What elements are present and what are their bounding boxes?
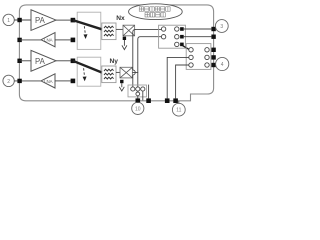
- svg-text:Ny: Ny: [110, 58, 119, 65]
- svg-text:LNA: LNA: [44, 79, 53, 84]
- M1 output contact row3: [175, 42, 179, 46]
- wire branch down to test pad c1: [133, 29, 136, 87]
- port 3: [215, 20, 228, 33]
- switch matrix box M1: [159, 25, 186, 48]
- coupler X2 tap junction: [120, 80, 123, 83]
- test pad group box: [128, 85, 147, 97]
- test pad c3: [141, 87, 145, 91]
- edge pad row2: [211, 35, 215, 39]
- M2 input contact row3: [189, 63, 193, 67]
- M2 output contact row1: [205, 48, 209, 52]
- M1 output contact row2: [175, 35, 179, 39]
- edge pad row1: [211, 27, 215, 31]
- test pad c4: [136, 92, 140, 96]
- M1 terminal row1: [180, 27, 184, 31]
- port 11: [172, 103, 185, 116]
- M1 output contact row1: [175, 27, 179, 31]
- M1 input contact row1: [161, 27, 165, 31]
- filter Nx waves: [104, 26, 114, 28]
- amplifier PA1: [31, 10, 56, 31]
- svg-text:1: 1: [7, 18, 10, 24]
- M1 terminal row3: [180, 43, 184, 47]
- control unit text line2: [145, 13, 165, 17]
- wire M1 row1 to edge: [184, 28, 212, 30]
- SW2 actuate arrow: [83, 68, 86, 76]
- M2 input contact row2: [189, 55, 193, 59]
- SW1 arm: [73, 20, 102, 29]
- wire PA2 in: [20, 60, 31, 62]
- wire coupler X1 to matrix row1: [135, 28, 162, 30]
- SW1 pole contact: [71, 18, 76, 23]
- filter Ny box: [102, 66, 116, 83]
- svg-text:11: 11: [176, 108, 181, 114]
- wire M2 row2 feed: [167, 57, 189, 98]
- wire Nx to coupler: [116, 28, 123, 30]
- switch box SW1: [77, 12, 101, 49]
- filter Ny waves: [104, 69, 114, 71]
- coupler X1 tap arrow: [122, 45, 127, 49]
- wire LNA1 in: [55, 39, 71, 41]
- coupler X2 tap line: [121, 83, 123, 87]
- port 4: [216, 57, 229, 70]
- amplifier LNA1: [41, 33, 55, 47]
- svg-text:PA: PA: [35, 57, 46, 66]
- wire coupler X2 output riser to matrix row2: [132, 37, 161, 73]
- test pad c2: [136, 87, 140, 91]
- wire Ny to coupler: [116, 71, 120, 73]
- wire port1 to PA1: [14, 19, 31, 21]
- edge pad M2 row1: [211, 48, 215, 52]
- svg-text:2: 2: [7, 79, 10, 85]
- svg-text:3: 3: [220, 24, 223, 30]
- port 2: [3, 75, 14, 86]
- M2 output contact row3: [205, 63, 209, 67]
- test pad c1: [131, 87, 135, 91]
- wire M1 row2 to edge: [184, 36, 212, 38]
- SW1 actuate arrow: [84, 26, 85, 34]
- wire c3 to bus: [142, 91, 144, 100]
- control unit text line1: [139, 7, 170, 11]
- coupler X1: [123, 25, 135, 36]
- amplifier PA2: [31, 50, 56, 71]
- switch box SW2: [77, 57, 101, 86]
- coupler X2: [120, 67, 132, 78]
- svg-text:4: 4: [221, 62, 224, 68]
- wire PA2 out: [56, 60, 71, 62]
- edge pad M2 row2: [211, 55, 215, 59]
- wire port2 to LNA2: [14, 80, 41, 82]
- bus pad S4: [173, 98, 178, 103]
- pad PA2 in: [17, 59, 21, 63]
- lever M1 to M2: [183, 46, 189, 50]
- pad P1: [17, 18, 21, 22]
- wire S2 riser: [148, 85, 150, 99]
- svg-text:10: 10: [135, 106, 141, 112]
- M2 input contact row1: [189, 48, 193, 52]
- port 10: [132, 102, 144, 114]
- SW2 arm: [73, 61, 102, 73]
- SW1 throw contact: [71, 38, 76, 43]
- svg-text:LNA: LNA: [44, 38, 53, 43]
- control unit ellipse: [129, 4, 183, 20]
- wire LNA2 in: [55, 80, 71, 82]
- SW2 throw contact: [71, 79, 76, 84]
- wire LNA1 out: [20, 39, 41, 41]
- bus pad S3: [165, 98, 170, 103]
- SW2 pole contact: [71, 59, 76, 64]
- M1 terminal row2: [180, 35, 184, 39]
- coupler X2 tap arrow: [119, 87, 124, 91]
- pad LNA1 out: [17, 38, 21, 42]
- wire M2 row3 feed: [176, 65, 189, 98]
- svg-text:PA: PA: [35, 16, 46, 25]
- switch matrix box M2: [186, 44, 211, 70]
- pad P2: [17, 79, 21, 83]
- bus pad S1: [136, 98, 141, 103]
- coupler X1 tap line: [123, 40, 125, 46]
- bus pad S2: [146, 98, 151, 103]
- wire PA1 out: [56, 19, 71, 21]
- svg-text:Nx: Nx: [116, 15, 125, 22]
- M2 output contact row2: [205, 55, 209, 59]
- wire descent to test pad c2: [137, 72, 139, 87]
- filter Nx box: [102, 23, 116, 40]
- wire c4 to pad S1: [137, 96, 139, 99]
- wire port11 stub: [178, 101, 180, 104]
- chip outline: [19, 5, 213, 101]
- port 1: [3, 14, 14, 25]
- wire hop over Ny line: [133, 70, 135, 75]
- amplifier LNA2: [41, 74, 55, 88]
- edge pad M2 row3: [211, 63, 215, 67]
- M1 input contact row2: [161, 35, 165, 39]
- coupler X1 tap junction: [123, 37, 126, 40]
